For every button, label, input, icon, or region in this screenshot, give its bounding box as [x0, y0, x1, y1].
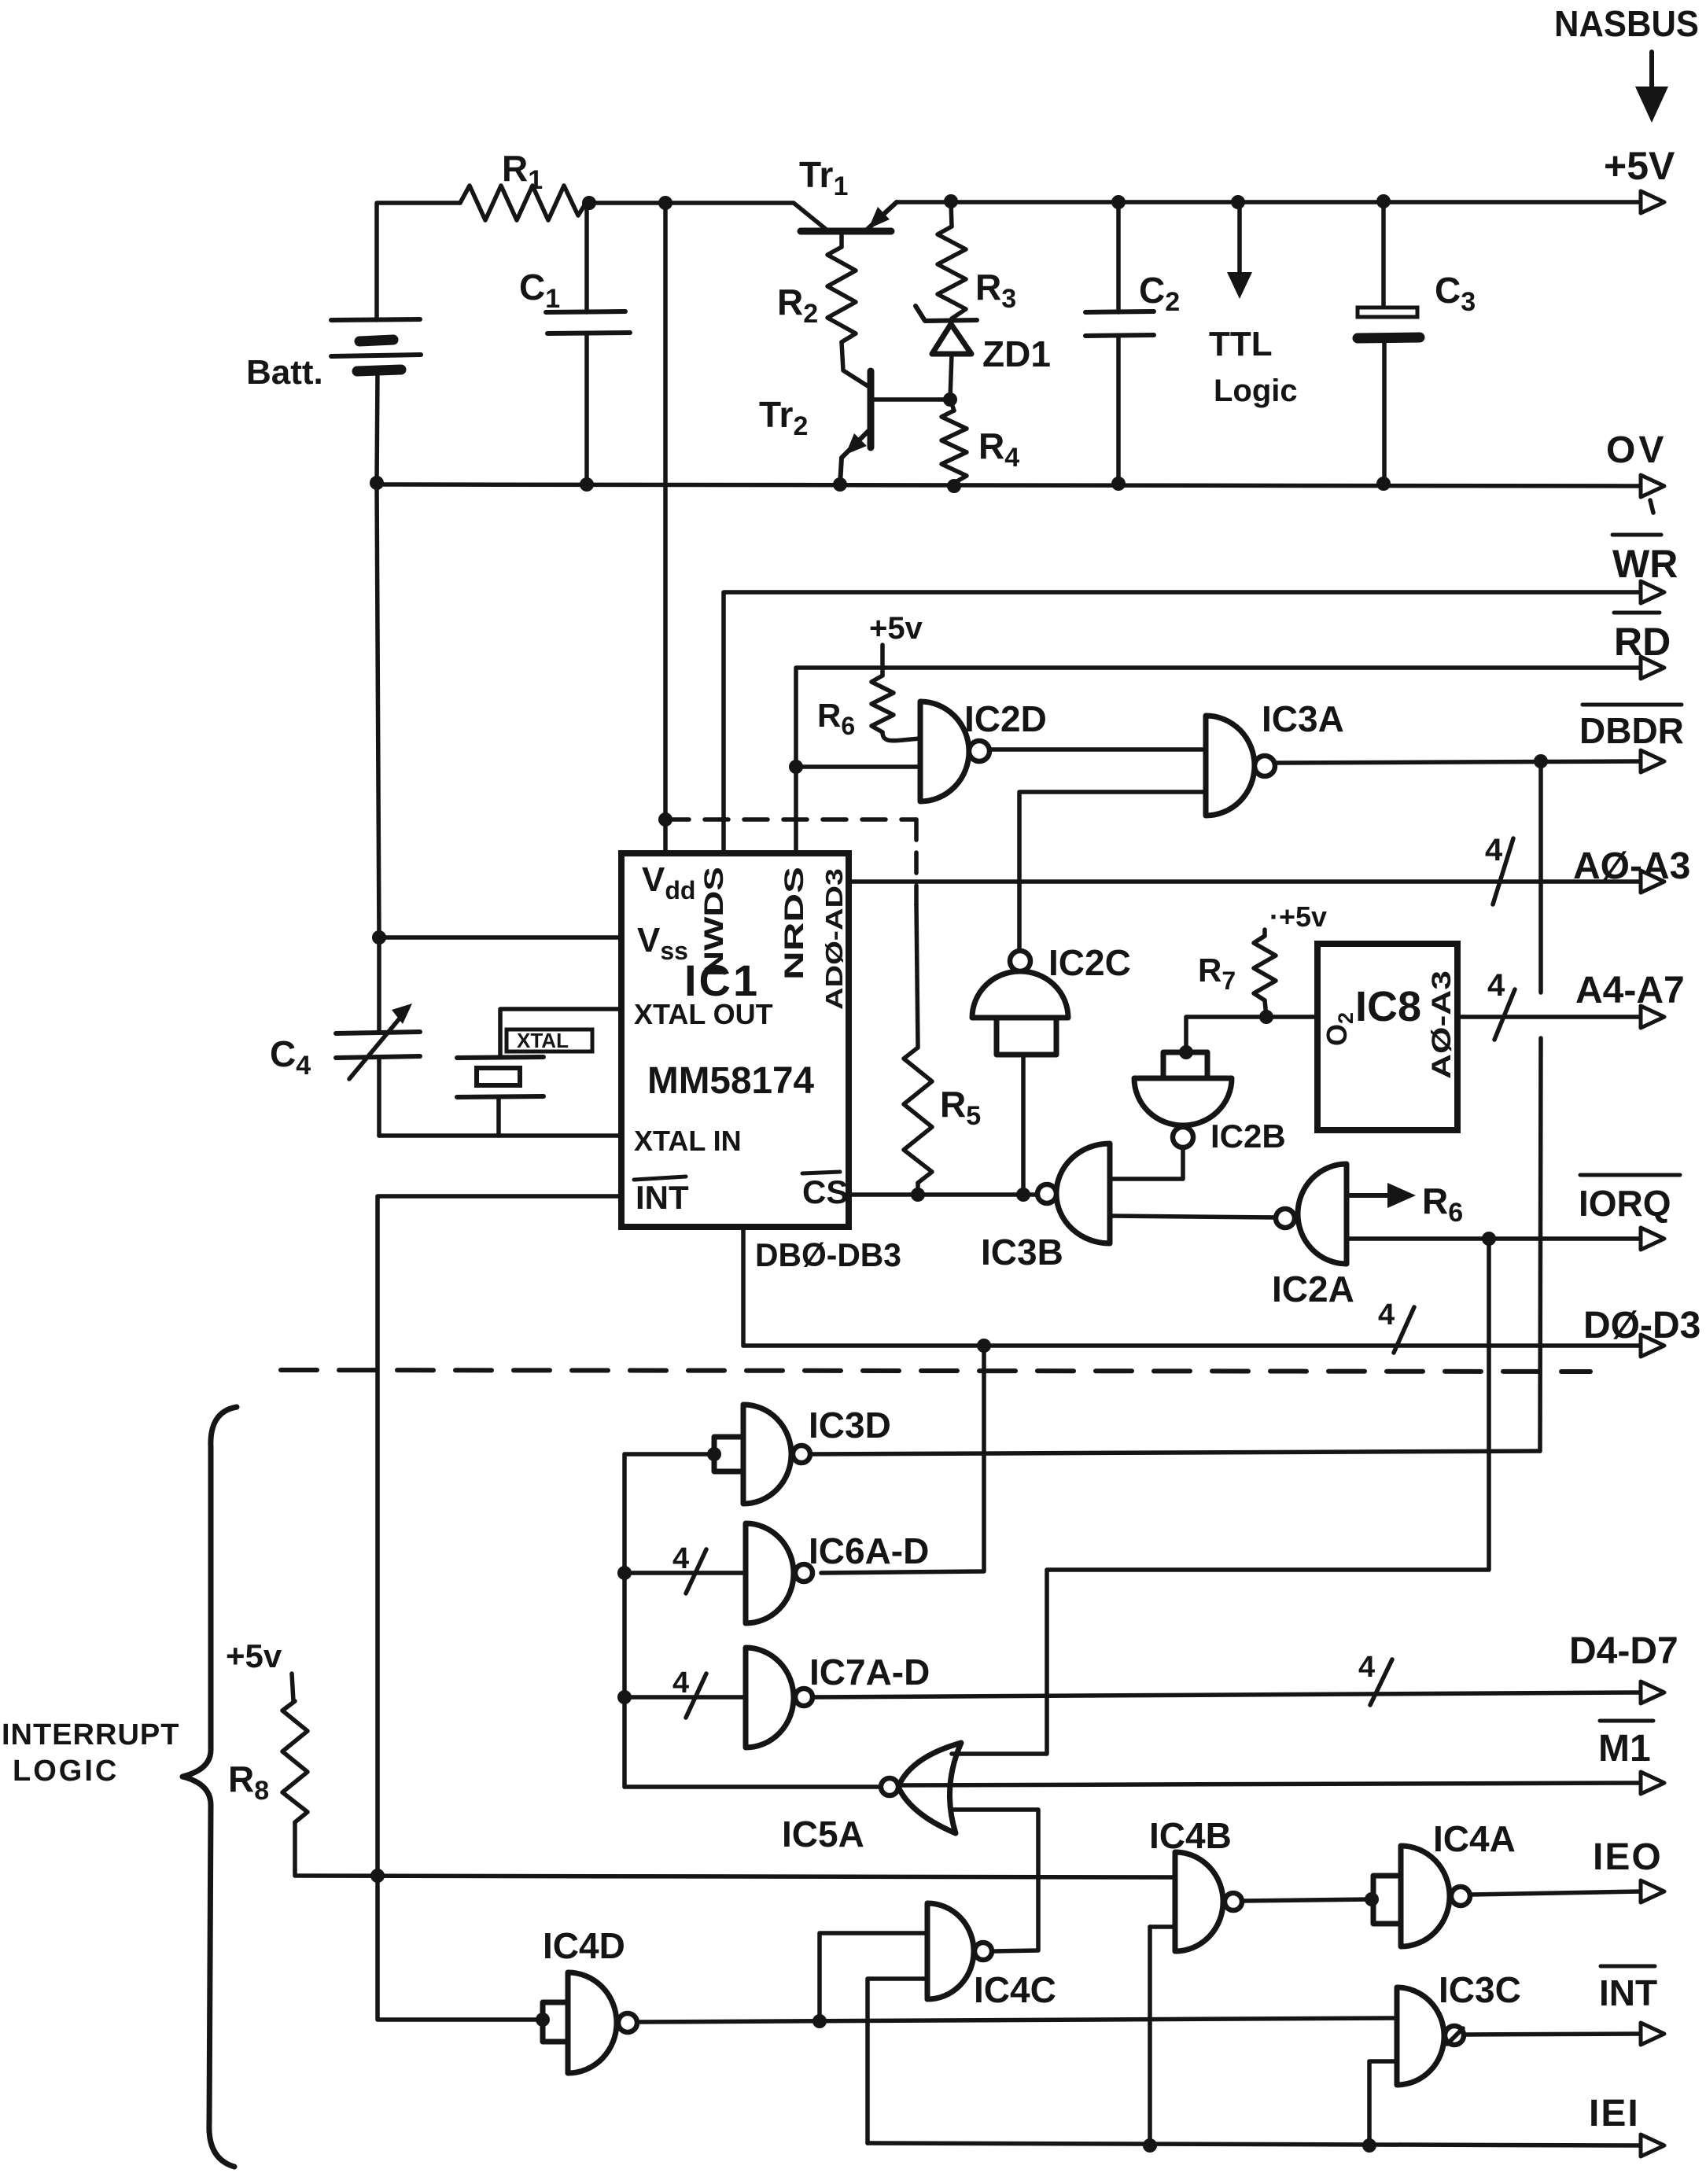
svg-text:4: 4 [1378, 1298, 1395, 1331]
label INTERRUPT LOGIC [2, 1718, 179, 1788]
node R: R7 junction [1259, 1010, 1273, 1024]
wire tap up to IC4C top input [820, 1933, 927, 2021]
battery Batt. [246, 319, 421, 483]
wire IC3D output to DBDR vertical [810, 1451, 1540, 1454]
wire 0V rail [377, 429, 1667, 513]
node AA: IC4A tied inputs [1365, 1892, 1379, 1906]
svg-text:IC3D: IC3D [809, 1405, 891, 1446]
node E: ZD1/R4/Tr2 base junction [943, 392, 957, 407]
wire TTL logic feed arrow [1209, 202, 1298, 408]
svg-text:D4-D7: D4-D7 [1569, 1630, 1678, 1672]
svg-text:4: 4 [1487, 968, 1505, 1003]
svg-text:INT: INT [1599, 1972, 1657, 2013]
svg-text:Batt.: Batt. [246, 353, 323, 392]
nand gate IC4C [927, 1903, 1056, 2010]
node I: rail junction C3 [1376, 194, 1391, 208]
svg-text:IC3C: IC3C [1439, 1969, 1521, 2010]
resistor R1 [460, 148, 586, 220]
svg-text:ADØ-AD3: ADØ-AD3 [820, 868, 848, 1010]
svg-text:Logic: Logic [1214, 374, 1298, 408]
svg-text:INT: INT [636, 1179, 689, 1216]
wire R7 node to IC8 and to IC2B [1186, 1017, 1317, 1052]
svg-text:·+5v: ·+5v [1269, 900, 1327, 933]
node P: dashed link on Vdd wire [658, 812, 672, 827]
transistor Tr2 [759, 342, 950, 484]
nand gate IC3A [1206, 698, 1344, 816]
svg-text:IEO: IEO [1593, 1836, 1663, 1878]
svg-text:4: 4 [672, 1542, 689, 1575]
node L: C2 on 0V [1111, 477, 1126, 491]
nand gate IC3D (inverter) [625, 1405, 891, 1504]
svg-text:DBDR: DBDR [1579, 710, 1684, 751]
resistor R6 [817, 676, 920, 741]
nand gate IC6A-D [625, 1523, 929, 1623]
svg-text:NRDS: NRDS [779, 867, 809, 980]
wire INT from IC1 [378, 1196, 621, 1875]
power +5v (R6 pullup) [869, 611, 923, 676]
wire +5V rail [377, 144, 1675, 320]
node W: D0-D3 tap to IC6 [977, 1339, 991, 1353]
wire INT down to IC4D [378, 1876, 541, 2020]
node AB: IC4D output tap to IC4C [812, 2014, 827, 2028]
svg-text:IC2D: IC2D [964, 698, 1047, 739]
node NASBUS entry [1554, 3, 1699, 123]
svg-text:OV: OV [1606, 429, 1667, 471]
brace interrupt-logic group [182, 1407, 237, 2167]
svg-text:MM58174: MM58174 [647, 1060, 814, 1102]
wire dashed Vdd to R5 link [665, 819, 916, 904]
node AD: IC4B input on IEI [1143, 2138, 1157, 2153]
svg-text:NWDS: NWDS [699, 867, 729, 977]
svg-text:IC3B: IC3B [981, 1232, 1063, 1272]
svg-text:XTAL OUT: XTAL OUT [634, 998, 773, 1030]
node F: R4 on 0V [947, 479, 961, 493]
wire A0-A3 bus [849, 833, 1690, 904]
node G: rail junction C2 [1111, 195, 1126, 209]
svg-text:4: 4 [1358, 1651, 1375, 1684]
svg-text:INTERRUPT: INTERRUPT [2, 1718, 179, 1751]
svg-text:TTL: TTL [1209, 325, 1273, 363]
svg-text:IC4D: IC4D [543, 1925, 625, 1966]
capacitor C1 [519, 203, 630, 484]
svg-text:4: 4 [672, 1667, 689, 1700]
svg-text:+5V: +5V [1604, 144, 1675, 188]
svg-text:WR: WR [1612, 542, 1678, 586]
node Y: bus junction IC6 input [617, 1566, 632, 1580]
wire Vss from battery line to IC1 [379, 935, 621, 940]
node H: rail junction TTL feed [1231, 195, 1245, 209]
wire IC5A output to bus [625, 1784, 882, 1789]
node X: INT vertical on pulled-up net [370, 1869, 385, 1883]
wire Vdd vertical from rail to IC1 [663, 203, 668, 853]
wire dashed section divider [281, 1370, 1590, 1372]
node O: DBDR junction to IC3D [1534, 754, 1548, 768]
svg-text:4: 4 [1485, 833, 1503, 867]
svg-text:CS: CS [802, 1173, 848, 1210]
node D: rail junction R3 [944, 194, 958, 208]
wire INT output net [1464, 1966, 1664, 2045]
node T: R5 on CS [911, 1188, 925, 1202]
IC chip IC1 MM58174 [621, 853, 849, 1227]
svg-text:AØ-A3: AØ-A3 [1573, 845, 1690, 887]
node N: RD tap to IC2D [789, 760, 803, 774]
svg-text:XTAL: XTAL [517, 1029, 569, 1052]
resistor R2 [777, 233, 856, 342]
node Z: bus junction IC7 input [617, 1690, 632, 1704]
wire IC2A input from R6 net (arrow) [1347, 1180, 1463, 1228]
capacitor C4 (trimmer) [270, 1004, 420, 1081]
wire left input bus (IC5A output) [622, 1454, 627, 1787]
wire IC3A lower input from IC2C [1019, 792, 1206, 951]
svg-text:IC7A-D: IC7A-D [809, 1652, 930, 1692]
resistor R3 [938, 201, 1016, 319]
node U: IC2C stem on CS [1016, 1188, 1030, 1202]
svg-text:NASBUS: NASBUS [1554, 3, 1699, 44]
nand gate IC7A-D [625, 1648, 930, 1748]
wire IEI left branch to IC4C lower input [868, 1979, 927, 2143]
capacitor C2 [1085, 202, 1180, 484]
IC chip IC8 [1317, 944, 1457, 1130]
wire IEO net [1470, 1836, 1664, 1902]
svg-text:DBØ-DB3: DBØ-DB3 [755, 1236, 901, 1273]
nand gate IC2D [920, 698, 1047, 801]
svg-text:ZD1: ZD1 [982, 333, 1051, 374]
wire IC5A lower input from IC4C [953, 1810, 1038, 1951]
nand gate IC2A (points left) [1272, 1164, 1354, 1309]
svg-text:IC3A: IC3A [1262, 698, 1344, 739]
wire IC4B lower input to IEI [1148, 1927, 1152, 2145]
wire IORQ tap down to IC5A [952, 1239, 1489, 1754]
wire battery negative down-line [377, 483, 379, 1136]
svg-text:LOGIC: LOGIC [13, 1755, 119, 1788]
wire IC4B output to IC4A [1242, 1899, 1372, 1901]
wire IC2B output to IC3B [1111, 1147, 1183, 1179]
wire DBDR vertical to IC3D output [1540, 761, 1541, 1451]
capacitor C3 (polarised) [1358, 201, 1476, 484]
wire IEI net [868, 2093, 1664, 2156]
svg-text:IC5A: IC5A [782, 1814, 864, 1854]
transistor Tr1 [799, 154, 897, 231]
node K: C1 on 0V [580, 477, 594, 492]
wire IC3C lower input to IEI [1367, 2061, 1372, 2145]
wire WR net [724, 535, 1678, 853]
wire IC3B lower input to IC2A output [1110, 1216, 1276, 1217]
resistor R5 [904, 904, 981, 1195]
node C: Tr2 emitter on 0V [833, 477, 847, 492]
wire DB0-DB3 from IC1 [743, 1227, 901, 1346]
wire IC2D output to IC3A [989, 747, 1206, 752]
resistor R8 [228, 1701, 308, 1870]
node AC: IC3C input on IEI [1362, 2138, 1376, 2153]
wire M1 net [900, 1721, 1664, 1794]
nand gate IC4B [1149, 1815, 1242, 1951]
svg-text:IC4B: IC4B [1149, 1815, 1232, 1856]
wire D0-D3 bus [743, 1298, 1700, 1357]
svg-text:IC2A: IC2A [1272, 1269, 1354, 1309]
svg-text:IC2C: IC2C [1048, 942, 1131, 983]
svg-text:IC6A-D: IC6A-D [809, 1530, 929, 1571]
node J: battery on 0V [370, 476, 384, 490]
svg-text:+5v: +5v [869, 611, 923, 646]
wire RD net [796, 613, 1671, 853]
svg-text:IORQ: IORQ [1579, 1183, 1671, 1224]
node V: IORQ tap junction [1482, 1232, 1496, 1246]
zener diode ZD1 [916, 306, 1051, 400]
nand gate IC4A (inverter) [1373, 1818, 1516, 1946]
svg-text:IC4A: IC4A [1433, 1818, 1516, 1859]
svg-text:IEI: IEI [1589, 2093, 1640, 2134]
svg-text:A4-A7: A4-A7 [1575, 970, 1685, 1011]
svg-text:M1: M1 [1598, 1728, 1651, 1770]
svg-text:IC4C: IC4C [974, 1969, 1056, 2010]
nand gate IC4D (inverter) [536, 1925, 637, 2073]
resistor R4 [941, 400, 1019, 483]
wire R8 to IC4B input (INT pulled-up net) [295, 1870, 1175, 1877]
wire XTAL IN lead [379, 1133, 621, 1138]
svg-text:+5v: +5v [226, 1637, 282, 1674]
node M: C3 on 0V [1376, 477, 1391, 491]
wire RD tap to IC2D input [796, 764, 920, 769]
svg-text:IC2B: IC2B [1210, 1118, 1286, 1155]
wire DBDR net [1275, 705, 1684, 772]
wire D4-D7 bus [812, 1630, 1678, 1705]
node B: junction rail/Vdd wire [658, 196, 672, 210]
svg-text:AØ-A3: AØ-A3 [1427, 970, 1457, 1079]
wire XTAL OUT lead [500, 1009, 621, 1057]
wire A4-A7 bus [1457, 968, 1685, 1040]
node S: IC2B tied inputs [1179, 1045, 1193, 1059]
node A: junction R1/C1 [582, 196, 596, 210]
nand gate IC2C (inverter, points up) [972, 942, 1131, 1195]
nand gate IC2B (inverter, points down) [1134, 1052, 1286, 1155]
wire CS net [849, 1192, 1037, 1197]
power +5v (R7 pullup) [1265, 900, 1327, 936]
crystal XTAL [457, 1029, 592, 1136]
svg-text:XTAL IN: XTAL IN [634, 1125, 742, 1157]
svg-text:IC8: IC8 [1355, 983, 1421, 1030]
resistor R7 [1198, 936, 1276, 1017]
wire IORQ net [1347, 1175, 1680, 1250]
nand gate IC3B (points left) [981, 1144, 1110, 1272]
node Q: Vss tap on battery line [372, 930, 386, 945]
wire IC4D output to IC3C input [637, 2018, 1397, 2022]
nor gate IC5A (points left) [782, 1743, 961, 1854]
power +5v (R8 pullup) [226, 1637, 293, 1701]
nand gate IC3C [1369, 1969, 1521, 2085]
wire D0-D3 tap down to IC6 output [821, 1346, 984, 1573]
